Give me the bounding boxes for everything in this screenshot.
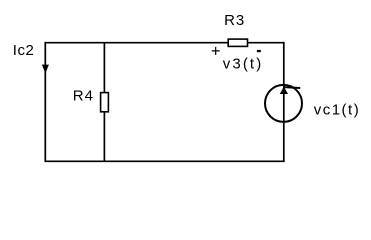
source arrow (up) inside circle <box>280 87 288 94</box>
wire: left vertical <box>44 42 46 162</box>
wire: bottom horizontal <box>45 160 285 162</box>
svg-text:R3: R3 <box>224 12 245 29</box>
wire: middle vertical <box>103 43 105 162</box>
wire: top horizontal <box>45 42 283 44</box>
svg-text:+: + <box>211 43 221 61</box>
current direction arrow on left wire (Ic2) <box>42 65 49 74</box>
source circle vc1 <box>265 85 302 122</box>
svg-text:Ic2: Ic2 <box>13 42 35 59</box>
svg-text:v3(t): v3(t) <box>223 56 263 73</box>
svg-text:vc1(t): vc1(t) <box>314 102 361 119</box>
resistor R4 body <box>101 93 109 112</box>
resistor R3 body <box>228 39 247 46</box>
polarity minus sign <box>257 50 261 52</box>
source arrow tick line <box>284 86 300 89</box>
svg-text:R4: R4 <box>73 87 94 104</box>
wire: right vertical <box>283 42 285 162</box>
